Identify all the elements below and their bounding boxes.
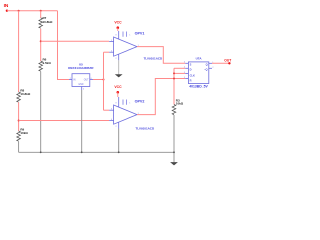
svg-text:OPV2: OPV2: [135, 100, 145, 104]
left pin stubs: [185, 62, 188, 64]
node junction at x=40.7 on IN wire: [40, 10, 42, 12]
svg-text:1: 1: [129, 34, 130, 36]
svg-text:5: 5: [184, 77, 185, 79]
wire U5 OUT to ref net: [93, 79, 104, 81]
svg-text:Q: Q: [206, 62, 208, 66]
wire ref net vertical: [103, 52, 105, 110]
bus junction at R6 column: [40, 151, 42, 153]
svg-text:D: D: [190, 67, 192, 71]
wire riser to U5 IN: [58, 11, 70, 80]
ground bus: [19, 151, 174, 153]
svg-text:3: 3: [184, 72, 185, 74]
svg-text:6: 6: [184, 62, 185, 64]
NC pins top: [122, 100, 124, 105]
svg-text:2: 2: [116, 126, 117, 128]
svg-text:4: 4: [83, 89, 84, 91]
resistor R3: [172, 99, 184, 115]
svg-text:REF3133AIDBZR: REF3133AIDBZR: [68, 66, 94, 70]
NC pins top: [122, 32, 124, 37]
wire IN horizontal: [7, 10, 58, 12]
ground symbol: [170, 162, 178, 165]
wire left column upper (IN to R8): [18, 11, 20, 92]
svg-text:VCC: VCC: [114, 85, 122, 89]
node junction at CLK row: [173, 72, 175, 74]
wire divider node to OPV1 +in: [41, 40, 110, 42]
svg-text:VCC: VCC: [114, 21, 122, 25]
U5 pin stubs: [69, 79, 72, 81]
svg-text:8: 8: [116, 34, 117, 36]
op-amp OPV1: [109, 31, 163, 60]
svg-text:CLK: CLK: [190, 73, 195, 77]
svg-text:TLV9101ACD: TLV9101ACD: [144, 56, 163, 60]
svg-text:3: 3: [111, 109, 112, 111]
wire ref net to OPV2 +in: [104, 109, 110, 111]
power pin V+: [118, 97, 120, 107]
svg-text:10kΩ: 10kΩ: [20, 131, 28, 135]
svg-text:10.8kΩ: 10.8kΩ: [43, 20, 54, 24]
wire U5 GND to bus: [81, 90, 83, 152]
wire OPV1 out to U7A S: [137, 47, 185, 64]
svg-text:IN: IN: [4, 3, 9, 9]
wire R7 stub from IN wire: [40, 11, 42, 18]
port OUT: [224, 58, 231, 64]
bus junction at U5 column: [81, 151, 83, 153]
svg-text:3: 3: [111, 40, 112, 42]
resistor R7: [39, 16, 53, 28]
svg-text:OPV1: OPV1: [135, 31, 145, 35]
svg-text:4013BD_5V: 4013BD_5V: [189, 84, 208, 88]
wire R8/R9 node to OPV2 -in: [19, 120, 110, 122]
resistor R8: [17, 89, 31, 103]
svg-text:S: S: [190, 62, 192, 66]
bus junction at ground column: [173, 151, 175, 153]
wire ref net to OPV1 -in: [104, 51, 110, 53]
power pin V-: [118, 122, 120, 128]
svg-text:IN: IN: [73, 80, 76, 82]
svg-text:2: 2: [212, 67, 213, 69]
node junction R8/R9: [18, 120, 20, 122]
input pin stubs: [109, 109, 113, 111]
wire R3 to ground: [173, 115, 175, 162]
wire R7 to divider node: [40, 29, 42, 61]
svg-text:~Q: ~Q: [204, 67, 208, 71]
svg-text:TLV9101ACD: TLV9101ACD: [136, 126, 155, 130]
resistor R6: [39, 58, 51, 72]
node junction at x=18.6 on IN wire: [18, 10, 20, 12]
svg-text:GND: GND: [78, 84, 83, 86]
svg-text:1: 1: [129, 102, 130, 104]
svg-text:2: 2: [70, 78, 71, 80]
svg-text:9.5kΩ: 9.5kΩ: [43, 61, 52, 65]
resistor R9: [17, 128, 29, 142]
wire R9 to ground bus: [18, 142, 20, 153]
port IN: [4, 3, 9, 12]
wire to U7A D: [174, 67, 185, 69]
wire to U7A CLK: [174, 72, 185, 74]
svg-text:R: R: [190, 78, 192, 82]
node junction ref net: [103, 79, 105, 81]
svg-text:OUT: OUT: [224, 58, 231, 62]
wire R6 to ground bus: [40, 72, 42, 153]
wire U7A D,CLK tie vertical to R3: [173, 68, 175, 104]
wire R8 to node: [18, 102, 20, 131]
wire OPV2 out to U7A R: [137, 79, 185, 115]
svg-text:4: 4: [111, 119, 112, 121]
node junction at R row: [173, 78, 175, 80]
input pin stubs: [109, 41, 113, 43]
wire U7A Q to OUT: [212, 62, 229, 64]
svg-text:6: 6: [91, 78, 92, 80]
VCC symbol for OPV1: [114, 21, 122, 31]
VCC symbol for OPV2: [114, 85, 122, 97]
wire OPV2 V- to ground bus: [118, 129, 120, 153]
svg-text:U7A: U7A: [196, 57, 203, 61]
flip-flop U7A 4013BD_5V: [184, 57, 214, 89]
svg-text:OUT: OUT: [84, 80, 89, 82]
right pin stubs: [209, 62, 212, 64]
power pin V+: [118, 31, 120, 39]
svg-text:10kΩ: 10kΩ: [176, 102, 184, 106]
svg-text:10.8kΩ: 10.8kΩ: [20, 92, 31, 96]
svg-text:2: 2: [116, 58, 117, 60]
svg-text:8: 8: [116, 102, 117, 104]
svg-text:4: 4: [111, 51, 112, 53]
node junction divider R7/R6: [40, 40, 42, 42]
bus junction at OPV2 column: [118, 151, 120, 153]
power pin V-: [118, 54, 120, 60]
svg-text:4: 4: [184, 67, 185, 69]
ground below OPV1: [115, 60, 123, 77]
op-amp OPV2: [109, 97, 155, 130]
voltage reference U5 REF3133AIDBZR: [68, 63, 94, 91]
